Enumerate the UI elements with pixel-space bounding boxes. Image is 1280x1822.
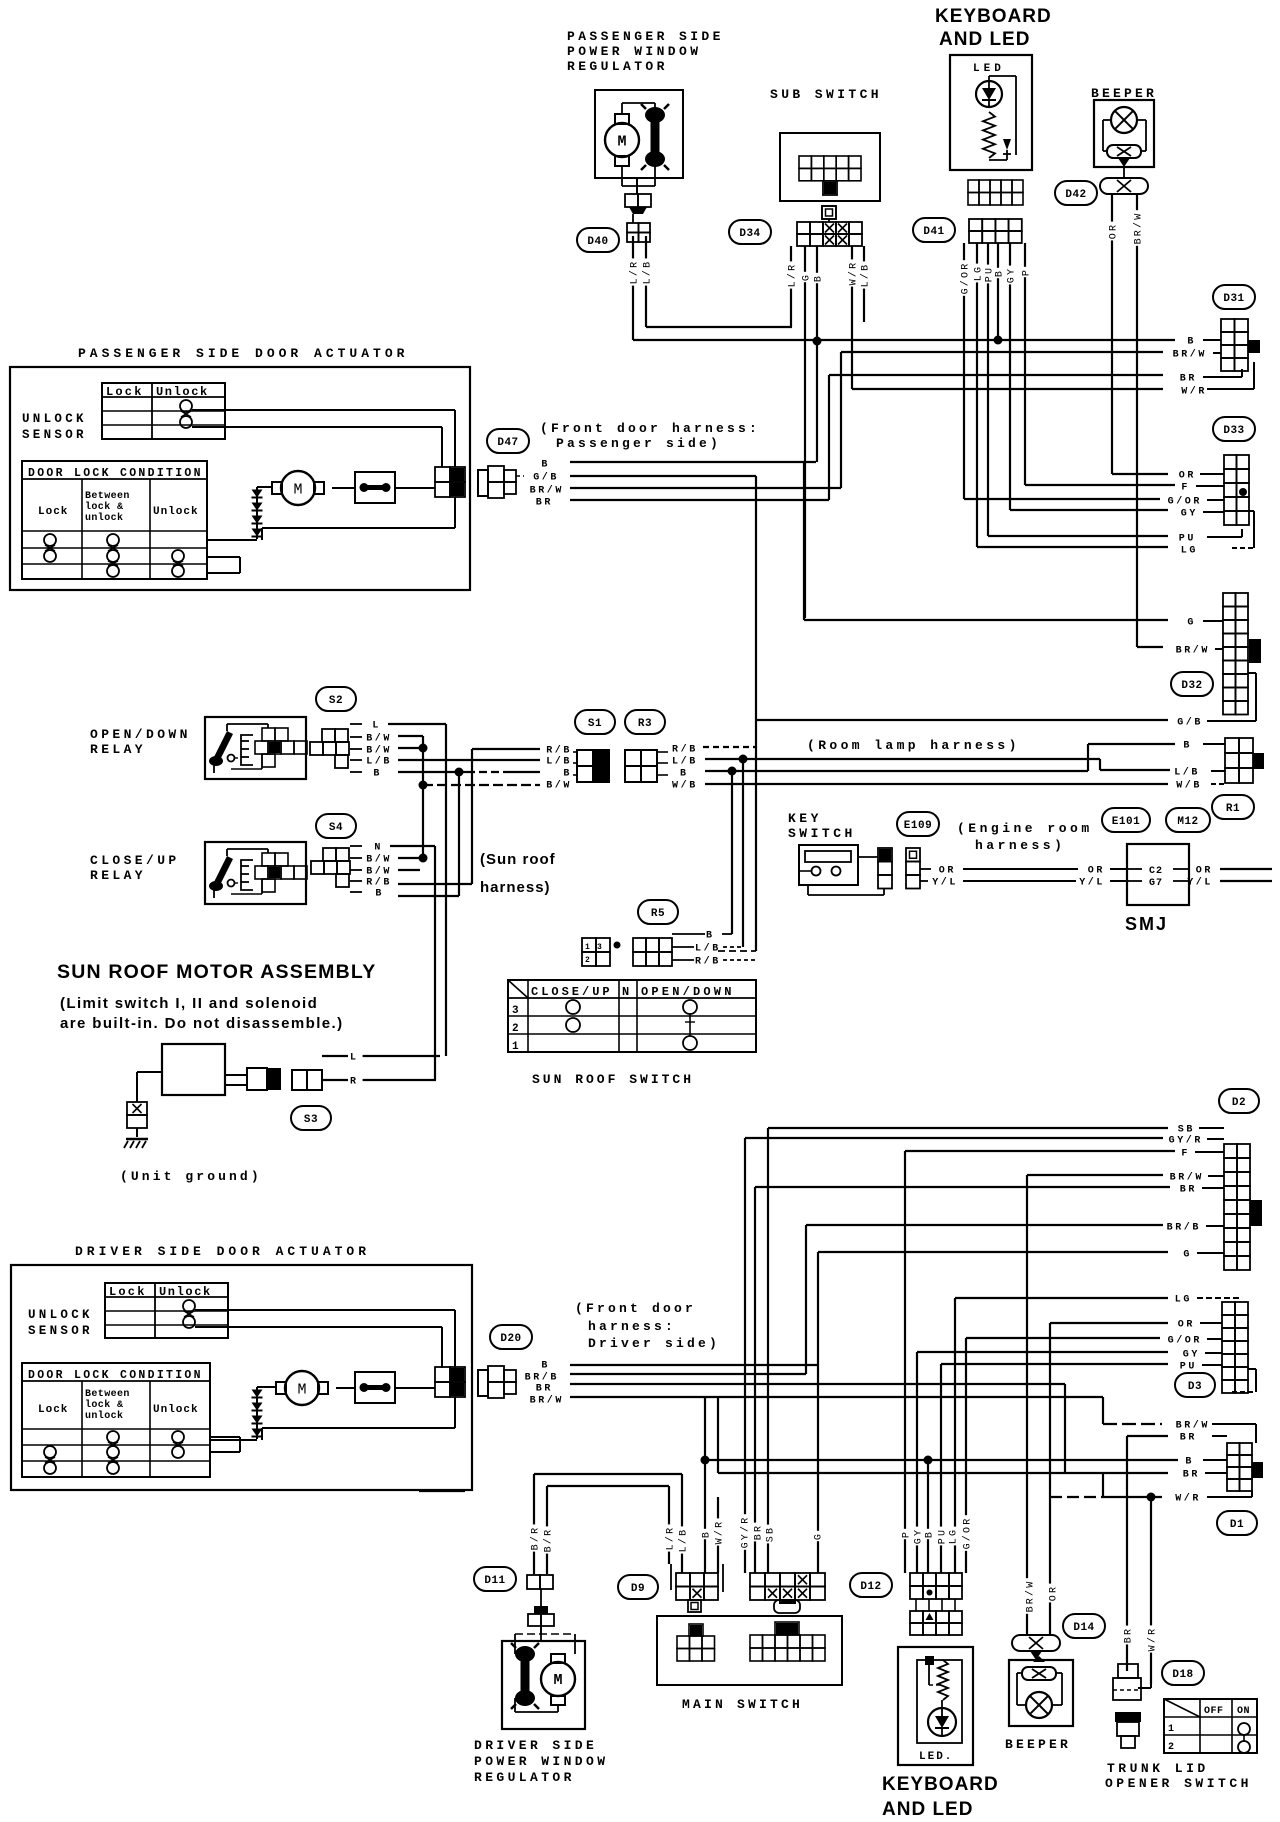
svg-text:OR: OR — [1109, 223, 1120, 239]
svg-text:G/B: G/B — [1177, 717, 1203, 729]
svg-text:R/B: R/B — [672, 744, 698, 756]
svg-text:(Limit switch I, II and soleno: (Limit switch I, II and solenoid — [60, 995, 318, 1012]
svg-text:D12: D12 — [860, 1581, 881, 1593]
svg-text:KEYBOARD: KEYBOARD — [935, 6, 1052, 27]
svg-text:REGULATOR: REGULATOR — [567, 59, 668, 74]
svg-text:KEY: KEY — [788, 811, 822, 826]
svg-text:R: R — [350, 1077, 359, 1088]
svg-text:M12: M12 — [1177, 816, 1198, 828]
svg-text:L/B: L/B — [678, 1528, 690, 1553]
svg-text:harness): harness) — [975, 838, 1065, 853]
svg-text:W/R: W/R — [714, 1520, 726, 1545]
svg-text:AND LED: AND LED — [939, 29, 1030, 50]
svg-text:TRUNK LID: TRUNK LID — [1107, 1761, 1209, 1776]
svg-text:1: 1 — [585, 943, 590, 952]
svg-text:S3: S3 — [304, 1114, 318, 1126]
svg-text:B: B — [702, 1530, 713, 1538]
svg-text:Lock: Lock — [38, 506, 68, 518]
svg-text:D9: D9 — [631, 1583, 645, 1595]
svg-text:OR: OR — [1178, 1320, 1195, 1331]
svg-text:lock &: lock & — [85, 501, 123, 513]
svg-text:AND LED: AND LED — [882, 1799, 973, 1820]
svg-text:B: B — [541, 1361, 550, 1372]
svg-text:B/W: B/W — [546, 780, 572, 792]
svg-text:M: M — [297, 1382, 306, 1399]
svg-text:B/R: B/R — [530, 1526, 542, 1551]
svg-text:B: B — [995, 269, 1006, 277]
svg-text:lock &: lock & — [85, 1399, 123, 1411]
svg-text:Between: Between — [85, 491, 130, 502]
svg-text:D11: D11 — [484, 1575, 505, 1587]
svg-text:(Sun roof: (Sun roof — [480, 851, 556, 868]
svg-text:G: G — [802, 273, 813, 281]
svg-text:POWER WINDOW: POWER WINDOW — [567, 44, 701, 59]
svg-text:PU: PU — [1179, 534, 1196, 545]
svg-text:BR/W: BR/W — [1176, 645, 1210, 657]
svg-text:Lock: Lock — [38, 1404, 68, 1416]
svg-text:D20: D20 — [500, 1333, 521, 1345]
svg-text:D2: D2 — [1232, 1097, 1246, 1109]
svg-text:BR: BR — [536, 498, 553, 509]
svg-text:R/B: R/B — [366, 877, 392, 889]
svg-text:B: B — [541, 460, 550, 471]
svg-text:CLOSE/UP: CLOSE/UP — [90, 853, 180, 868]
svg-text:L: L — [372, 721, 381, 732]
svg-text:C2: C2 — [1149, 866, 1163, 877]
svg-text:LED.: LED. — [919, 1751, 953, 1763]
svg-text:W/B: W/B — [672, 780, 698, 792]
svg-text:G/OR: G/OR — [1168, 496, 1202, 508]
svg-text:G: G — [1187, 618, 1196, 629]
svg-text:OR: OR — [1088, 866, 1105, 877]
svg-text:B/W: B/W — [366, 745, 392, 757]
svg-text:N: N — [374, 843, 383, 854]
svg-text:POWER WINDOW: POWER WINDOW — [474, 1754, 608, 1769]
svg-text:Unlock: Unlock — [153, 1404, 199, 1416]
svg-text:B: B — [1185, 1457, 1194, 1468]
svg-text:2: 2 — [512, 1023, 519, 1035]
svg-text:P: P — [902, 1530, 913, 1538]
svg-text:BR/B: BR/B — [1167, 1222, 1201, 1234]
svg-text:harness): harness) — [480, 879, 551, 896]
svg-text:L/B: L/B — [860, 263, 872, 288]
svg-text:W/B: W/B — [1176, 780, 1202, 792]
svg-text:OR: OR — [1179, 471, 1196, 482]
svg-text:OR: OR — [1049, 1585, 1060, 1601]
svg-text:N: N — [622, 985, 629, 999]
svg-text:GY: GY — [1183, 1350, 1200, 1361]
svg-text:BR: BR — [1183, 1470, 1200, 1481]
svg-text:1: 1 — [1168, 1724, 1174, 1735]
svg-text:S1: S1 — [588, 718, 602, 730]
svg-text:BR/W: BR/W — [1025, 1580, 1037, 1613]
svg-text:SWITCH: SWITCH — [788, 826, 856, 841]
svg-text:L/B: L/B — [695, 943, 721, 955]
svg-text:1: 1 — [512, 1041, 519, 1053]
svg-text:RELAY: RELAY — [90, 742, 146, 757]
svg-text:M: M — [553, 1672, 562, 1689]
svg-text:BEEPER: BEEPER — [1091, 86, 1157, 101]
svg-text:SUN ROOF SWITCH: SUN ROOF SWITCH — [532, 1072, 694, 1087]
svg-text:B: B — [925, 1530, 936, 1538]
svg-text:D18: D18 — [1172, 1669, 1193, 1681]
svg-text:Y/L: Y/L — [1187, 877, 1213, 889]
svg-text:G/OR: G/OR — [960, 262, 972, 295]
svg-text:Between: Between — [85, 1389, 130, 1400]
svg-text:3: 3 — [597, 943, 602, 952]
svg-text:L/R: L/R — [629, 260, 641, 285]
svg-text:OR: OR — [939, 866, 956, 877]
svg-text:E101: E101 — [1112, 816, 1140, 828]
svg-text:G: G — [1183, 1250, 1192, 1261]
svg-text:BR: BR — [754, 1524, 765, 1540]
svg-text:B: B — [1187, 337, 1196, 348]
svg-text:Unlock: Unlock — [156, 385, 209, 399]
svg-text:OPEN/DOWN: OPEN/DOWN — [641, 985, 735, 999]
svg-text:M: M — [293, 482, 302, 499]
svg-text:OPENER SWITCH: OPENER SWITCH — [1105, 1776, 1252, 1791]
svg-text:SUN ROOF MOTOR ASSEMBLY: SUN ROOF MOTOR ASSEMBLY — [57, 961, 376, 983]
svg-text:D47: D47 — [497, 437, 518, 449]
svg-text:B/W: B/W — [366, 733, 392, 745]
svg-text:Passenger side): Passenger side) — [556, 436, 721, 451]
svg-text:PASSENGER SIDE: PASSENGER SIDE — [567, 29, 724, 44]
svg-text:M: M — [617, 134, 626, 151]
svg-text:B: B — [680, 769, 689, 780]
svg-text:SUB SWITCH: SUB SWITCH — [770, 87, 882, 102]
svg-text:GY: GY — [1007, 267, 1018, 283]
svg-text:BR/W: BR/W — [1170, 1172, 1204, 1184]
svg-text:B/W: B/W — [366, 866, 392, 878]
svg-text:(Unit ground): (Unit ground) — [120, 1169, 262, 1184]
svg-text:OPEN/DOWN: OPEN/DOWN — [90, 727, 191, 742]
svg-text:L: L — [350, 1053, 359, 1064]
svg-text:D33: D33 — [1223, 425, 1244, 437]
svg-text:B/R: B/R — [543, 1528, 555, 1553]
svg-text:unlock: unlock — [85, 1410, 123, 1422]
svg-text:Driver side): Driver side) — [588, 1336, 720, 1351]
svg-text:D1: D1 — [1230, 1519, 1244, 1531]
svg-text:R5: R5 — [651, 908, 665, 920]
svg-text:SB: SB — [766, 1526, 777, 1542]
svg-text:BR/B: BR/B — [525, 1372, 559, 1384]
svg-text:MAIN SWITCH: MAIN SWITCH — [682, 1697, 803, 1712]
svg-text:GY/R: GY/R — [740, 1516, 752, 1549]
svg-text:W/R: W/R — [1147, 1627, 1159, 1652]
svg-text:2: 2 — [1168, 1742, 1174, 1753]
svg-text:B: B — [814, 274, 825, 282]
svg-text:(Engine room: (Engine room — [957, 821, 1093, 836]
svg-text:G/OR: G/OR — [962, 1517, 974, 1550]
svg-text:B: B — [563, 769, 572, 780]
svg-text:LG: LG — [1181, 546, 1198, 557]
svg-text:L/R: L/R — [665, 1526, 677, 1551]
svg-text:S4: S4 — [329, 822, 343, 834]
svg-text:B: B — [1183, 741, 1192, 752]
svg-text:L/B: L/B — [1174, 767, 1200, 779]
svg-text:SB: SB — [1178, 1125, 1195, 1136]
svg-text:BR/W: BR/W — [1173, 349, 1207, 361]
svg-text:BR: BR — [1180, 1185, 1197, 1196]
svg-text:BR/W: BR/W — [1133, 212, 1145, 245]
svg-text:LED: LED — [973, 63, 1005, 75]
svg-text:DOOR LOCK CONDITION: DOOR LOCK CONDITION — [28, 1369, 203, 1382]
svg-text:GY: GY — [1181, 509, 1198, 520]
svg-text:Y/L: Y/L — [932, 877, 958, 889]
svg-text:D34: D34 — [739, 228, 760, 240]
svg-text:W/R: W/R — [848, 261, 860, 286]
svg-text:CLOSE/UP: CLOSE/UP — [531, 985, 613, 999]
svg-text:SENSOR: SENSOR — [22, 428, 87, 442]
svg-text:L/R: L/R — [787, 263, 799, 288]
svg-text:G/B: G/B — [533, 472, 559, 484]
svg-text:D32: D32 — [1181, 680, 1202, 692]
svg-text:PASSENGER SIDE DOOR ACTUATOR: PASSENGER SIDE DOOR ACTUATOR — [78, 346, 408, 361]
svg-text:LG: LG — [949, 1528, 960, 1544]
svg-text:L/B: L/B — [642, 260, 654, 285]
svg-text:BR: BR — [536, 1384, 553, 1395]
svg-text:ON: ON — [1237, 1706, 1250, 1717]
svg-text:RELAY: RELAY — [90, 868, 146, 883]
svg-text:(Front door: (Front door — [575, 1301, 696, 1316]
svg-text:UNLOCK: UNLOCK — [28, 1308, 93, 1322]
svg-text:S2: S2 — [329, 695, 343, 707]
svg-text:G: G — [814, 1532, 825, 1540]
svg-text:SMJ: SMJ — [1125, 914, 1168, 934]
svg-text:Y/L: Y/L — [1079, 877, 1105, 889]
svg-text:OFF: OFF — [1204, 1706, 1224, 1717]
svg-text:Lock: Lock — [109, 1285, 147, 1299]
svg-text:W/R: W/R — [1181, 386, 1207, 398]
svg-text:2: 2 — [585, 956, 590, 965]
svg-text:unlock: unlock — [85, 512, 123, 524]
svg-text:P: P — [1022, 268, 1033, 276]
svg-text:D41: D41 — [923, 226, 944, 238]
svg-text:G7: G7 — [1149, 878, 1163, 889]
svg-text:F: F — [1181, 1149, 1190, 1160]
svg-text:B/W: B/W — [366, 854, 392, 866]
svg-text:OR: OR — [1196, 866, 1213, 877]
svg-text:LG: LG — [1175, 1295, 1192, 1306]
svg-text:are built-in. Do not disassemb: are built-in. Do not disassemble.) — [60, 1015, 343, 1032]
svg-text:L/B: L/B — [546, 756, 572, 768]
svg-text:W/R: W/R — [1175, 1493, 1201, 1505]
svg-text:R1: R1 — [1226, 803, 1240, 815]
svg-text:Lock: Lock — [106, 385, 144, 399]
svg-text:KEYBOARD: KEYBOARD — [882, 1774, 999, 1795]
svg-text:3: 3 — [512, 1005, 519, 1017]
svg-text:Unlock: Unlock — [153, 506, 199, 518]
svg-text:R/B: R/B — [695, 956, 721, 968]
svg-text:BR: BR — [1124, 1627, 1135, 1643]
svg-text:D31: D31 — [1223, 293, 1244, 305]
svg-text:B: B — [373, 769, 382, 780]
svg-text:B: B — [375, 889, 384, 900]
svg-text:L/B: L/B — [672, 756, 698, 768]
svg-text:R3: R3 — [638, 718, 652, 730]
svg-text:BR: BR — [1180, 374, 1197, 385]
svg-text:Unlock: Unlock — [159, 1285, 212, 1299]
svg-text:G/OR: G/OR — [1168, 1335, 1202, 1347]
svg-text:(Front door harness:: (Front door harness: — [540, 421, 760, 436]
svg-text:SENSOR: SENSOR — [28, 1324, 93, 1338]
svg-text:D14: D14 — [1073, 1622, 1094, 1634]
svg-text:BR/W: BR/W — [530, 1395, 564, 1407]
svg-text:PU: PU — [1180, 1362, 1197, 1373]
svg-text:BR/W: BR/W — [1176, 1420, 1210, 1432]
svg-text:DRIVER SIDE DOOR ACTUATOR: DRIVER SIDE DOOR ACTUATOR — [75, 1244, 370, 1259]
svg-text:UNLOCK: UNLOCK — [22, 412, 87, 426]
svg-text:L/B: L/B — [366, 756, 392, 768]
svg-text:(Room lamp harness): (Room lamp harness) — [807, 738, 1020, 753]
svg-text:BR: BR — [1180, 1433, 1197, 1444]
svg-text:F: F — [1181, 483, 1190, 494]
svg-text:GY/R: GY/R — [1169, 1135, 1203, 1147]
svg-text:B: B — [706, 931, 715, 942]
svg-text:D3: D3 — [1188, 1381, 1202, 1393]
svg-text:R/B: R/B — [546, 745, 572, 757]
svg-text:D40: D40 — [587, 236, 608, 248]
svg-text:E109: E109 — [904, 820, 932, 832]
svg-text:BEEPER: BEEPER — [1005, 1737, 1071, 1752]
svg-text:DOOR LOCK CONDITION: DOOR LOCK CONDITION — [28, 467, 203, 480]
svg-text:harness:: harness: — [588, 1319, 676, 1334]
svg-text:REGULATOR: REGULATOR — [474, 1770, 575, 1785]
svg-text:DRIVER SIDE: DRIVER SIDE — [474, 1738, 597, 1753]
svg-text:BR/W: BR/W — [530, 485, 564, 497]
svg-text:D42: D42 — [1065, 189, 1086, 201]
